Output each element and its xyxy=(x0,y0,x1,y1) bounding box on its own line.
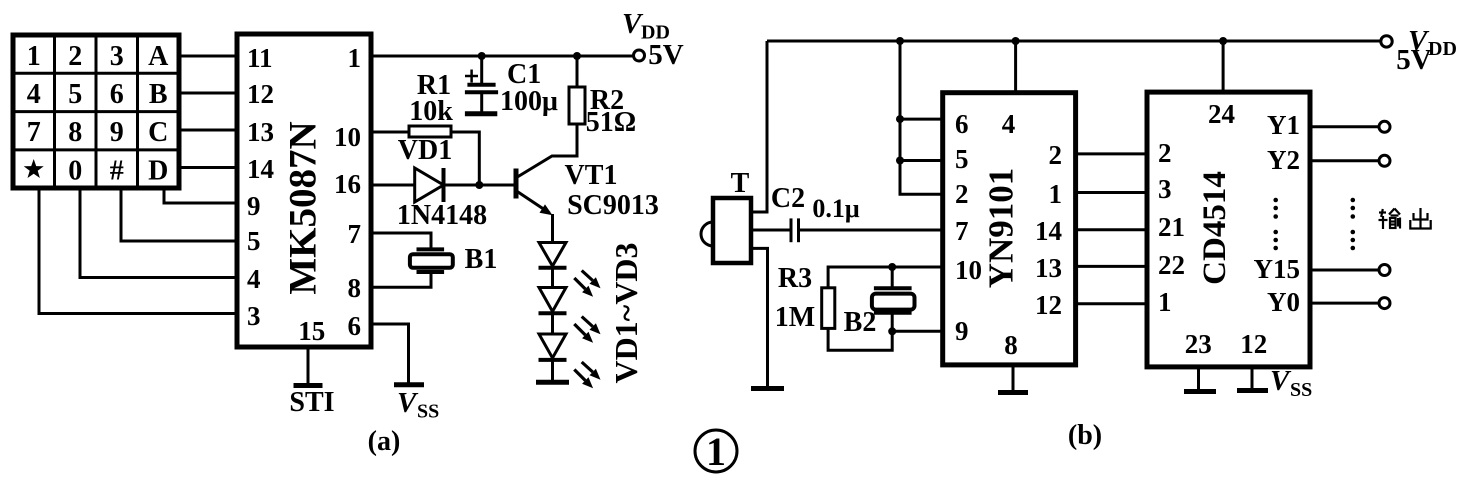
svg-text:2: 2 xyxy=(1158,138,1172,168)
svg-text:R3: R3 xyxy=(778,263,812,294)
svg-text:YN9101: YN9101 xyxy=(982,168,1021,289)
svg-text:0.1μ: 0.1μ xyxy=(812,194,860,223)
svg-text:5: 5 xyxy=(955,144,969,174)
svg-text:3: 3 xyxy=(1158,174,1172,204)
svg-text:2: 2 xyxy=(1049,140,1063,170)
svg-text:B: B xyxy=(149,79,168,110)
svg-text:1N4148: 1N4148 xyxy=(397,200,487,231)
svg-text:5: 5 xyxy=(68,79,82,110)
svg-text:4: 4 xyxy=(247,264,261,294)
svg-text:1: 1 xyxy=(706,429,726,474)
svg-text:1: 1 xyxy=(348,43,362,73)
svg-text:(b): (b) xyxy=(1068,420,1102,451)
svg-text:1: 1 xyxy=(1049,179,1063,209)
svg-text:V: V xyxy=(397,387,419,419)
svg-text:3: 3 xyxy=(110,41,124,72)
svg-text:2: 2 xyxy=(955,179,969,209)
svg-text:STI: STI xyxy=(289,387,334,418)
svg-text:12: 12 xyxy=(1035,290,1062,320)
svg-text:B1: B1 xyxy=(465,244,498,275)
svg-text:6: 6 xyxy=(348,311,362,341)
svg-text:8: 8 xyxy=(348,273,362,303)
svg-text:7: 7 xyxy=(348,219,362,249)
svg-text:VT1: VT1 xyxy=(565,160,618,191)
svg-text:V: V xyxy=(1270,365,1292,397)
svg-text:D: D xyxy=(148,156,168,187)
svg-text:7: 7 xyxy=(27,117,41,148)
svg-text:C: C xyxy=(148,117,168,148)
svg-text:10: 10 xyxy=(334,122,361,152)
svg-text:CD4514: CD4514 xyxy=(1197,171,1233,285)
svg-text:7: 7 xyxy=(955,216,969,246)
svg-text:SC9013: SC9013 xyxy=(567,190,659,221)
svg-text:10: 10 xyxy=(955,255,982,285)
svg-text:VD1: VD1 xyxy=(398,135,452,166)
svg-text:A: A xyxy=(148,41,169,72)
svg-text:21: 21 xyxy=(1158,212,1185,242)
svg-text:16: 16 xyxy=(334,169,361,199)
svg-text:C2: C2 xyxy=(771,183,805,214)
svg-text:Y15: Y15 xyxy=(1254,254,1301,284)
svg-text:Y1: Y1 xyxy=(1267,110,1300,140)
svg-text:13: 13 xyxy=(247,117,274,147)
svg-text:6: 6 xyxy=(955,109,969,139)
svg-text:Y0: Y0 xyxy=(1267,287,1300,317)
svg-text:2: 2 xyxy=(68,41,82,72)
svg-text:1: 1 xyxy=(27,41,41,72)
svg-text:24: 24 xyxy=(1208,99,1235,129)
svg-text:5: 5 xyxy=(247,226,261,256)
svg-text:0: 0 xyxy=(68,156,82,187)
svg-text:SS: SS xyxy=(417,401,439,423)
svg-text:14: 14 xyxy=(1035,216,1062,246)
svg-text:5V: 5V xyxy=(648,39,684,71)
svg-text:B2: B2 xyxy=(844,307,877,338)
svg-text:VD1~VD3: VD1~VD3 xyxy=(608,242,644,383)
svg-text:T: T xyxy=(731,168,750,199)
svg-text:8: 8 xyxy=(68,117,82,148)
svg-text:#: # xyxy=(110,156,124,187)
svg-text:12: 12 xyxy=(1240,329,1267,359)
svg-text:MK5087N: MK5087N xyxy=(282,121,325,294)
svg-text:9: 9 xyxy=(955,316,969,346)
svg-text:6: 6 xyxy=(110,79,124,110)
svg-text:22: 22 xyxy=(1158,250,1185,280)
svg-text:13: 13 xyxy=(1035,253,1062,283)
svg-text:DD: DD xyxy=(1428,38,1457,60)
svg-text:10k: 10k xyxy=(409,96,453,127)
svg-text:15: 15 xyxy=(298,316,325,346)
svg-text:(a): (a) xyxy=(368,426,401,457)
svg-text:12: 12 xyxy=(247,79,274,109)
svg-text:100μ: 100μ xyxy=(500,86,558,117)
svg-text:8: 8 xyxy=(1004,330,1018,360)
svg-text:3: 3 xyxy=(247,301,261,331)
svg-text:23: 23 xyxy=(1185,329,1212,359)
svg-text:1M: 1M xyxy=(775,302,815,333)
svg-text:51Ω: 51Ω xyxy=(586,107,636,138)
svg-text:9: 9 xyxy=(110,117,124,148)
svg-text:SS: SS xyxy=(1290,379,1312,401)
svg-text:1: 1 xyxy=(1158,287,1172,317)
svg-text:9: 9 xyxy=(247,191,261,221)
svg-text:5V: 5V xyxy=(1396,44,1432,76)
svg-text:11: 11 xyxy=(247,43,273,73)
svg-text:4: 4 xyxy=(1002,109,1016,139)
svg-text:4: 4 xyxy=(27,79,41,110)
svg-text:14: 14 xyxy=(247,154,274,184)
svg-text:Y2: Y2 xyxy=(1267,145,1300,175)
